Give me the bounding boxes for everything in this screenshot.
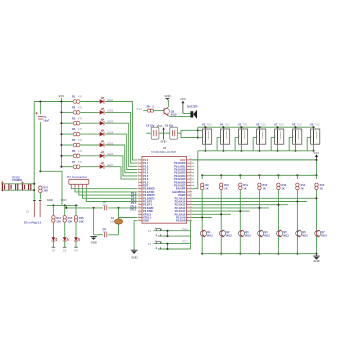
svg-text:7SG: 7SG [315,123,320,126]
svg-text:3: 3 [138,165,139,167]
ground bar key2 [63,246,67,248]
label Q2 [226,230,232,237]
svg-text:29: 29 [190,194,192,196]
junction K1 a [166,230,168,232]
wire K1 center link [167,231,169,236]
svg-text:1: 1 [297,129,298,131]
svg-text:14: 14 [138,200,140,202]
junction VCC row1 [60,100,62,102]
VCC label left [59,94,65,98]
junction branch2 top [220,174,222,176]
label R7 [72,160,83,164]
svg-text:7SG: 7SG [225,123,230,126]
svg-text:38: 38 [190,165,192,167]
diode D8 [21,181,24,190]
svg-text:470: 470 [78,128,83,131]
svg-text:1: 1 [138,158,139,160]
wire key2 lower [64,242,66,248]
label P2 power [12,175,22,182]
switch S1 [33,201,41,218]
wire DS5 common down [277,144,279,151]
svg-text:24: 24 [190,210,192,212]
wire Q1 collector [168,100,169,107]
svg-text:13: 13 [138,197,140,199]
transistor Q2 [220,230,226,237]
svg-text:GND: GND [131,255,137,259]
wire key1 upper [52,205,54,215]
vcc line right [192,159,317,161]
keys bus [47,204,78,206]
junction common DS1 [204,150,206,152]
svg-text:GND: GND [143,219,149,223]
svg-text:P1.0: P1.0 [137,107,143,111]
label X1 [110,216,115,223]
wire P1 pin3 to U2 [79,188,138,195]
svg-text:10K: 10K [56,220,61,224]
wire R8 to Q1 base [154,110,164,112]
svg-text:11: 11 [138,190,140,192]
diode D4 [51,223,57,241]
wire base line P2.5 [192,213,231,215]
wire key3 lower [75,242,77,248]
wire R6 to LED6 [80,155,99,157]
wire bus drop DS2 [222,127,224,129]
label R15 [68,216,73,223]
ground port right [313,254,320,263]
mcu U2 body [142,157,187,224]
svg-text:31: 31 [190,187,192,189]
svg-text:9: 9 [138,184,139,186]
junction base line 6 [220,213,222,215]
svg-text:R12: R12 [263,183,268,187]
LED LED3 [100,119,104,126]
wire branch6 mid [296,190,298,230]
svg-text:33: 33 [190,181,192,183]
junction bus DS3 [240,126,242,128]
svg-text:GND: GND [91,240,97,244]
wire branch3 mid [239,190,241,230]
wire bus drop DS1 [204,127,206,129]
junction key1 [52,204,54,206]
junction display feed b [197,137,199,139]
svg-text:7: 7 [138,178,139,180]
resistor R6 [73,154,80,158]
transistor Q3 [239,230,245,237]
svg-text:5: 5 [138,171,139,173]
svg-text:10uF: 10uF [43,118,49,122]
junction base line 4 [258,207,260,209]
junction common DS4 [258,150,260,152]
svg-text:1K: 1K [282,186,285,190]
svg-text:D5: D5 [63,249,67,253]
wire branch1 upper [201,175,203,179]
svg-text:2: 2 [221,136,222,138]
junction branch3 bottom [239,253,241,255]
svg-text:U8: U8 [292,122,296,126]
resistor R13 [277,183,280,190]
power rail bottom [2,189,35,191]
transistor Q1 [164,107,170,116]
label LED4 [107,130,114,134]
display segment bus [198,126,313,128]
svg-text:C9 22p: C9 22p [165,124,174,128]
svg-text:10K: 10K [43,189,48,193]
wire DS7 common down [313,144,315,151]
svg-text:DC in Plug 3.5: DC in Plug 3.5 [24,220,42,224]
svg-text:2: 2 [257,136,258,138]
wire LED6 to U2 pin6 [105,156,138,176]
wire bundle P0 stubs [192,163,194,185]
label C8 [146,124,155,128]
wire branch6 upper [296,175,298,179]
wire branch7 lower [316,237,318,254]
junction power bottom [33,189,35,191]
junction bus DS4 [258,126,260,128]
display DS7 body [311,129,320,144]
label R16 [79,216,84,223]
component C9 module [170,127,178,139]
resistor R4 [73,132,80,136]
label buzzer [187,105,197,109]
resistor R8 [148,109,154,112]
display DS2 body [221,129,230,144]
wire VCC stub row6 [61,155,73,157]
label LED6 [107,152,114,156]
crystal X1 [115,219,123,224]
display DS5 body [275,129,284,144]
label R1 [72,95,83,99]
svg-text:26: 26 [190,203,192,205]
label Q1 [207,230,213,237]
junction K2 b [166,248,168,250]
label D5 [63,249,67,253]
svg-text:P1 Connector: P1 Connector [67,175,87,179]
svg-text:15: 15 [138,203,140,205]
label DS1 [202,122,212,126]
resistor R2 [73,111,80,115]
capacitor C3 [104,232,106,237]
wire branch4 upper [258,175,260,179]
wire button K1 bottom [158,235,191,237]
svg-text:1: 1 [242,129,243,131]
svg-text:10K: 10K [79,220,84,224]
svg-text:9012: 9012 [226,234,232,238]
junction base line 5 [239,210,241,212]
svg-text:8: 8 [138,181,139,183]
wire U2 gnd [134,221,137,251]
LED LED2 [100,108,104,115]
label R6 [72,149,83,153]
diode D5 [63,223,69,241]
wire DS6 common down [295,144,297,151]
wire VCC stub row7 [61,166,73,168]
wire LED4 to U2 pin4 [105,134,138,169]
junction base line 3 [277,204,279,206]
label DS4 [256,122,266,126]
label R5 [72,138,83,142]
emitter ground bus [202,253,316,255]
display DS3 body [239,129,248,144]
svg-text:R7: R7 [72,160,76,164]
capacitor C6 [29,184,31,190]
wire C8 to C9 [159,132,170,134]
svg-text:U2: U2 [163,147,167,150]
wire LED1 to U2 pin1 [105,102,138,160]
svg-text:R13: R13 [282,183,287,187]
junction common DS6 [294,150,296,152]
svg-text:P2.0/A8: P2.0/A8 [176,219,186,223]
wire chain up DS4 [253,138,256,151]
svg-text:D6: D6 [74,249,78,253]
wire branch7 upper [316,175,318,179]
junction K1 b [166,235,168,237]
junction branch4 bottom [258,253,260,255]
wire base line P2.4 [192,210,250,212]
wire branch3 upper [239,175,241,179]
resistor R5 [73,143,80,147]
svg-text:35: 35 [190,174,192,176]
wire crystal vertical [118,208,120,235]
svg-text:34: 34 [190,178,192,180]
resistor R11 [239,183,242,190]
label R14 [301,183,306,190]
svg-text:470: 470 [78,150,83,153]
wire R5 to LED5 [80,144,99,146]
wire LED5 to U2 pin5 [105,145,138,173]
LED LED4 [100,130,104,137]
svg-text:7SG: 7SG [297,123,302,126]
capacitor C1 [35,112,43,171]
wire base line P2.1 [192,201,307,203]
wire R2 to LED2 [80,111,99,113]
svg-text:P3.3: P3.3 [182,240,188,244]
label Q7 [321,230,327,237]
wire key3 upper [75,205,77,215]
label Q3 [245,230,251,237]
wire P1 pin5 to U2 [86,188,137,202]
resistor R1 [73,100,80,104]
wire branch4 mid [258,190,260,230]
wire branch7 mid [316,190,318,230]
transistor Q6 [296,230,302,237]
junction power top [33,183,35,185]
svg-text:7SG: 7SG [207,123,212,126]
svg-text:36: 36 [190,171,192,173]
junction common DS3 [240,150,242,152]
svg-text:VCC: VCC [180,97,186,101]
LED LED1 [100,97,104,104]
svg-text:9012: 9012 [283,234,289,238]
label R8 [147,104,155,108]
label R10 [224,183,229,190]
component C8 module [151,127,159,139]
junction bus DS7 [312,126,314,128]
label U2 designator [163,147,167,150]
svg-text:1K: 1K [320,186,323,190]
wire base line P2.2 [192,204,288,206]
svg-text:R14: R14 [301,183,306,187]
wire xtal bottom line [94,234,119,236]
label Q5 [283,230,289,237]
resistor R3 [73,121,80,125]
svg-text:40: 40 [190,158,192,160]
capacitor C2 [104,206,106,211]
label C9 [165,124,174,128]
wire VCC stub row2 [61,111,73,113]
wire DS4 common down [259,144,261,151]
svg-text:20: 20 [138,219,140,221]
junction common DS7 [312,150,314,152]
label R4 [72,127,83,131]
svg-text:VCC: VCC [157,124,163,128]
junction base line 1 [315,197,317,199]
resistor R15 [63,216,66,223]
junction rail B branch [39,170,41,172]
display DS4 body [257,129,266,144]
power port VCC xtal [157,124,163,128]
wire R1 to LED1 [80,101,99,103]
wire branch1 mid [201,190,203,230]
junction K2 a [166,243,168,245]
wire row1 VCC feed [34,101,73,103]
junction branch5 top [277,174,279,176]
connector plug J1 [1,181,4,191]
svg-text:10K: 10K [68,220,73,224]
junction branch3 top [239,174,241,176]
svg-text:18: 18 [138,213,140,215]
capacitor C5 [16,184,18,190]
wire DS2 common down [222,144,224,151]
wire branch6 lower [296,237,298,254]
svg-text:VCC: VCC [61,198,67,202]
ground label keys [47,198,53,202]
label Q1 [171,109,177,116]
label DS5 [274,122,284,126]
resistor R12 [258,183,261,190]
svg-text:U7: U7 [274,122,278,126]
wire VCC to buzzer [183,112,191,114]
buzzer LS1 [190,110,197,119]
junction branch6 top [296,174,298,176]
svg-text:U9: U9 [310,122,314,126]
junction branch2 bottom [220,253,222,255]
svg-text:2: 2 [275,136,276,138]
svg-text:32: 32 [190,184,192,186]
svg-text:10: 10 [138,187,140,189]
LED LED7 [100,162,104,169]
svg-text:1K: 1K [205,186,208,190]
svg-text:STC89C52RC-40I-PDIP: STC89C52RC-40I-PDIP [151,152,177,154]
svg-text:30p: 30p [103,231,108,234]
junction xtal left [65,207,67,209]
junction rail B top [39,100,41,102]
svg-text:12M: 12M [110,220,115,223]
transistor Q1 [200,230,206,237]
junction branch1 top [201,174,203,176]
connector P1 pins [71,184,86,188]
svg-text:VCC: VCC [313,151,319,155]
svg-text:Q6: Q6 [302,230,306,234]
wire VCC stub row3 [61,122,73,124]
wire crystal to XTAL1 [119,217,138,219]
svg-text:U3: U3 [202,122,206,126]
junction branch5 bottom [277,253,279,255]
net label P1.7 buzzer [137,107,143,111]
resistor R7 [73,165,80,169]
ground rail A vertical [33,102,35,201]
wire VCC stub row4 [61,133,73,135]
wire xtal top line [66,207,137,209]
display feed vertical [197,127,199,137]
svg-text:2: 2 [293,136,294,138]
button K2 [155,241,162,249]
label U2 part number [151,152,177,154]
svg-text:BUZZER: BUZZER [187,105,197,109]
junction VCC row5 [60,144,62,146]
wire bus drop DS5 [277,127,279,129]
svg-text:1: 1 [224,129,225,131]
svg-text:12: 12 [138,194,140,196]
label C3 [103,227,108,234]
svg-text:K2: K2 [148,242,152,246]
wire key2 upper [64,205,66,215]
wire base line P2.6 [192,217,212,219]
wire bus drop DS7 [313,127,315,129]
svg-text:470: 470 [78,117,83,120]
wire chain up DS5 [271,138,274,151]
svg-text:R15: R15 [320,183,325,187]
mcu U2 pin names [138,158,192,222]
svg-text:30: 30 [190,190,192,192]
svg-text:9012: 9012 [321,234,327,238]
ground port xtal [90,237,96,245]
junction VCC display bus [315,159,317,161]
wire branch2 lower [220,237,222,254]
wire Q1 emitter to buzzer [169,115,191,117]
wire DS3 common down [240,144,242,151]
svg-text:R1: R1 [72,95,76,99]
wire chain up DS2 [217,138,220,151]
label R2 [72,106,83,110]
branch supply bus [202,174,316,176]
label R14 [56,216,61,223]
svg-text:U4: U4 [220,122,224,126]
label DS7 [310,122,320,126]
wire bus drop DS3 [240,127,242,129]
power port VCC display [313,151,319,160]
svg-text:Q7: Q7 [321,230,325,234]
LED LED5 [100,140,104,147]
svg-text:R16: R16 [79,216,84,220]
svg-text:19: 19 [138,216,140,218]
wire chain up DS3 [235,138,238,151]
label R13 [282,183,287,190]
wire feed into DS1 top [198,129,203,131]
wire C9 to display bus [178,130,198,133]
wire base line P2.3 [192,207,269,209]
wire DS1 common down [204,144,206,151]
svg-text:D4: D4 [52,249,56,253]
label C1 value [43,115,49,122]
svg-text:U6: U6 [256,122,260,126]
label R11 [243,183,248,190]
junction key3 [75,204,77,206]
svg-text:1K: 1K [152,105,155,108]
junction xtal right [117,207,119,209]
svg-text:27: 27 [190,200,192,202]
wire branch5 upper [277,175,279,179]
wire bus drop DS4 [259,127,261,129]
